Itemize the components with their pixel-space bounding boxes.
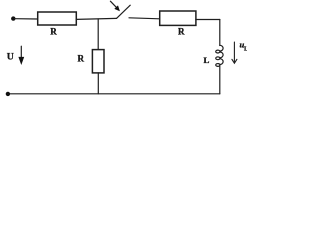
wire: top rail from switch contact to resistor R (top-right): [129, 18, 160, 19]
svg-text:L: L: [244, 46, 247, 52]
wire: middle branch from resistor to bottom rail: [97, 73, 99, 94]
arrow: source voltage reference direction: [18, 46, 24, 65]
wire: top rail from top-right resistor to right corner: [196, 19, 220, 21]
node: top-left input terminal: [11, 16, 15, 20]
node: bottom-left input terminal: [6, 92, 10, 96]
wire: top rail from input terminal to resistor R (top-left): [15, 18, 38, 20]
inductor L (coil): [216, 45, 223, 66]
resistor R (middle shunt resistor): [92, 50, 104, 73]
wire: right rail down to inductor: [219, 20, 221, 46]
wire: right rail from inductor down to bottom corner: [219, 65, 221, 93]
wire: junction branch down to middle resistor: [97, 19, 99, 50]
switch S (open blade): [117, 5, 131, 18]
svg-text:U: U: [7, 52, 14, 63]
svg-text:L: L: [203, 55, 209, 65]
wire: bottom return rail: [9, 93, 220, 95]
svg-text:R: R: [178, 27, 185, 37]
svg-text:R: R: [50, 27, 57, 37]
wire: top rail from top-left resistor to switch pivot: [76, 18, 116, 19]
arrow: inductor voltage reference direction: [232, 42, 237, 63]
arrow: switch closing action arrow: [110, 1, 120, 11]
resistor R (top-left series resistor): [38, 12, 77, 25]
svg-text:R: R: [78, 54, 85, 64]
resistor R (top-right series resistor): [160, 11, 196, 25]
